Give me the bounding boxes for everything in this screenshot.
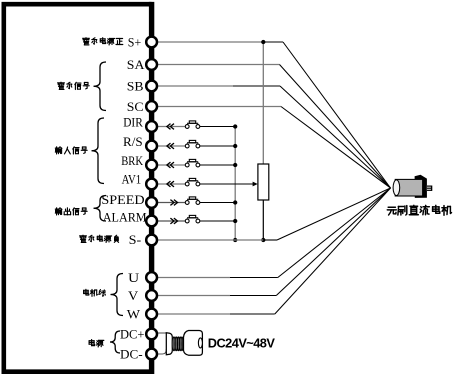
svg-text:V: V	[128, 289, 138, 303]
svg-text:DIR: DIR	[123, 116, 143, 130]
svg-text:S+: S+	[128, 36, 141, 50]
svg-text:DC+: DC+	[120, 328, 144, 342]
svg-text:U: U	[128, 271, 139, 285]
svg-text:DC-: DC-	[120, 347, 143, 361]
svg-text:SB: SB	[127, 80, 144, 94]
svg-text:DC24V~48V: DC24V~48V	[208, 336, 276, 351]
svg-text:W: W	[127, 308, 140, 322]
svg-text:SC: SC	[127, 100, 144, 114]
svg-text:SA: SA	[127, 58, 145, 72]
svg-text:AV1: AV1	[122, 172, 142, 186]
svg-text:R/S: R/S	[123, 135, 143, 149]
svg-text:S-: S-	[129, 233, 142, 247]
svg-text:BRK: BRK	[121, 154, 143, 168]
svg-text:SPEED: SPEED	[101, 193, 144, 207]
svg-text:ALARM: ALARM	[103, 210, 147, 224]
